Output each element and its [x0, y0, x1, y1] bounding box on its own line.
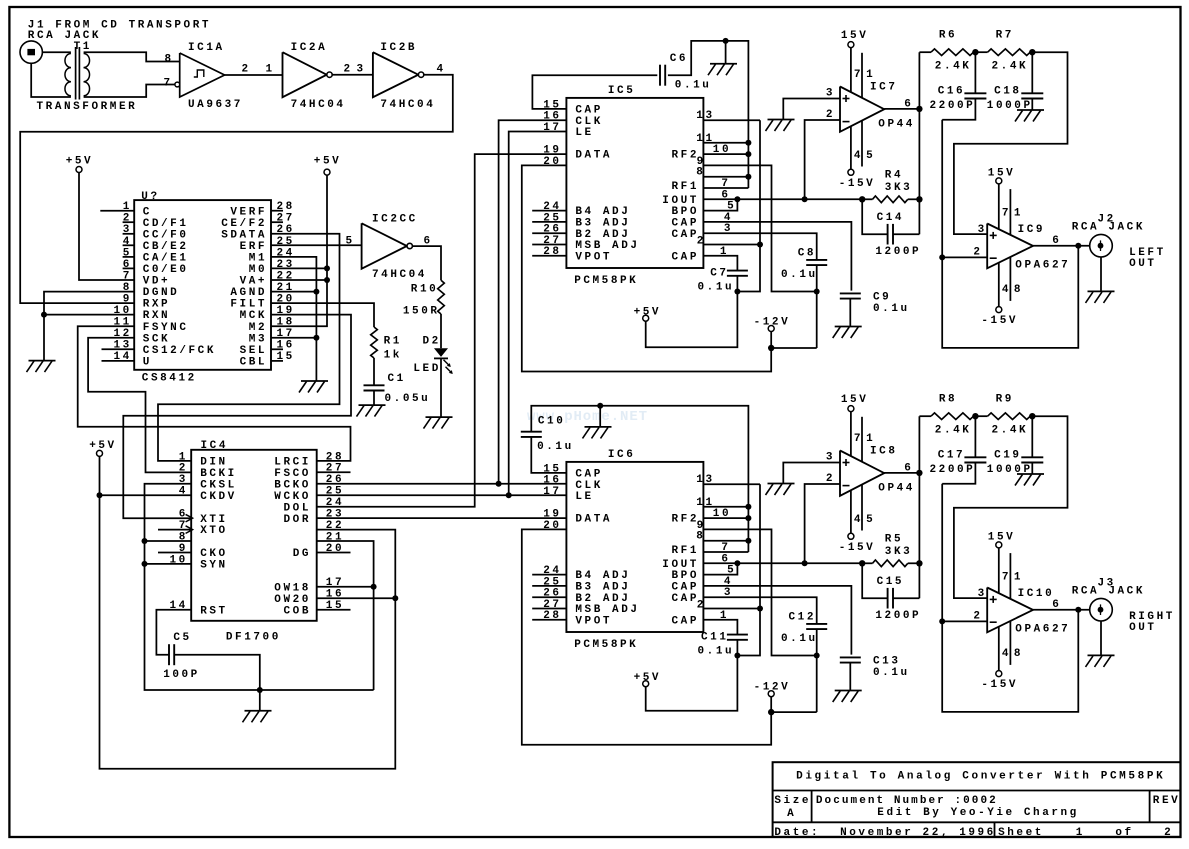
wire FILT pin20 to R1	[271, 303, 374, 327]
svg-text:0.1u: 0.1u	[675, 80, 712, 92]
wire fb to buffer +in	[954, 52, 1068, 234]
svg-text:OP44: OP44	[878, 118, 915, 130]
svg-text:BCKI: BCKI	[200, 468, 237, 480]
svg-text:0.1u: 0.1u	[781, 269, 818, 281]
node pin2 junction	[757, 242, 763, 248]
svg-text:1: 1	[266, 64, 275, 76]
wire CKSL ground net	[145, 484, 374, 690]
size cell	[774, 795, 811, 820]
node R junction left	[859, 560, 865, 566]
wire pin5 stub	[861, 121, 863, 167]
wire pin1 stub b	[1009, 553, 1011, 599]
capacitor C6	[532, 41, 748, 188]
ground C10 node	[583, 406, 612, 439]
resistor R4	[862, 169, 919, 202]
svg-text:74HC04: 74HC04	[291, 99, 346, 111]
ground C9	[833, 327, 862, 339]
wire fb node riser	[942, 484, 1078, 712]
svg-text:VPOT: VPOT	[575, 251, 612, 263]
svg-text:3K3: 3K3	[885, 546, 912, 558]
svg-text:2200P: 2200P	[930, 464, 976, 476]
svg-text:CB/E2: CB/E2	[143, 241, 189, 253]
svg-text:M3: M3	[249, 333, 267, 345]
wire 15V pin7 b	[998, 548, 1000, 593]
node AGND junction	[313, 289, 319, 295]
svg-text:CAP: CAP	[672, 218, 699, 230]
capacitor C10	[521, 406, 749, 552]
node R junction right	[916, 196, 922, 202]
svg-text:RF1: RF1	[672, 545, 699, 557]
svg-text:MSB ADJ: MSB ADJ	[575, 240, 639, 252]
svg-text:OUT: OUT	[1129, 258, 1156, 270]
svg-text:1200P: 1200P	[875, 610, 921, 622]
wire RF1 pin7 stub	[703, 551, 748, 553]
wire M3 pin17	[271, 337, 316, 339]
svg-text:BPO: BPO	[672, 570, 699, 582]
node output junction	[1075, 243, 1081, 249]
svg-text:2: 2	[697, 599, 706, 611]
power -15V IC8	[839, 533, 876, 554]
node pin2 junction	[757, 606, 763, 612]
svg-text:WCKO: WCKO	[274, 491, 311, 503]
svg-text:C9: C9	[873, 291, 891, 303]
op-amp IC8	[826, 445, 915, 495]
svg-text:4: 4	[1002, 648, 1011, 660]
wire R10 to D2	[440, 314, 442, 348]
node buffer -in junction	[939, 618, 945, 624]
svg-text:XTO: XTO	[200, 525, 227, 537]
svg-text:R6: R6	[939, 30, 957, 42]
IC IC5 PCM58PK body	[566, 85, 703, 287]
wire WCKO to LE	[317, 494, 567, 496]
wire OW18 pin17	[317, 586, 374, 588]
ground J2	[1086, 291, 1115, 303]
node out junction	[916, 106, 922, 112]
watermark	[527, 409, 648, 425]
svg-text:CAP: CAP	[575, 469, 602, 481]
svg-text:IOUT: IOUT	[662, 195, 699, 207]
node M0 junction	[324, 265, 330, 271]
capacitor C17	[930, 416, 987, 484]
capacitor C12	[703, 597, 827, 655]
svg-text:M0: M0	[249, 264, 267, 276]
capacitor C11	[698, 620, 748, 658]
svg-text:0.1u: 0.1u	[698, 282, 735, 294]
svg-text:1: 1	[179, 451, 188, 463]
svg-text:19: 19	[543, 509, 561, 521]
svg-text:U: U	[143, 357, 152, 369]
wire -in	[805, 120, 840, 199]
node pin8 junction	[142, 538, 148, 544]
svg-text:CKDV: CKDV	[200, 491, 237, 503]
svg-text:CKO: CKO	[200, 548, 227, 560]
capacitor C16	[930, 52, 987, 120]
svg-text:TRANSFORMER: TRANSFORMER	[37, 101, 138, 113]
svg-text:IC2CC: IC2CC	[372, 214, 418, 226]
svg-text:M1: M1	[249, 253, 267, 265]
wire T1 secondary bottom to IC1A pin7	[84, 85, 175, 98]
rca jack J1	[20, 41, 42, 63]
svg-text:CA/E1: CA/E1	[143, 253, 189, 265]
wire pin2 stub	[703, 244, 760, 246]
svg-text:2: 2	[344, 64, 353, 76]
IC4 nc stubs	[158, 472, 351, 610]
doc number	[816, 795, 998, 807]
wire buffer out	[1033, 609, 1099, 611]
node BPO junction	[734, 196, 740, 202]
svg-text:2.4K: 2.4K	[992, 61, 1029, 73]
wire -15V pin4 b	[998, 263, 1000, 307]
wire IC5 CLK riser	[499, 120, 567, 484]
node CKDV junction	[97, 492, 103, 498]
power +5V VD+	[66, 156, 93, 173]
svg-text:Sheet: Sheet	[998, 827, 1044, 839]
svg-text:CAP: CAP	[672, 593, 699, 605]
node OW20 junction	[392, 595, 398, 601]
svg-text:B3 ADJ: B3 ADJ	[575, 218, 630, 230]
svg-text:OW18: OW18	[274, 582, 311, 594]
svg-text:SDATA: SDATA	[221, 229, 267, 241]
wire R1 to C1	[373, 358, 375, 385]
IC IC6 PCM58PK body	[566, 449, 703, 651]
svg-text:R5: R5	[885, 533, 903, 545]
svg-text:IC10: IC10	[1018, 588, 1055, 600]
svg-text:of: of	[1115, 827, 1133, 839]
node -12V junction	[768, 345, 774, 351]
svg-text:28: 28	[326, 451, 344, 463]
wire IOUT	[703, 198, 862, 200]
node RXN junction	[41, 312, 47, 318]
svg-text:C6: C6	[670, 53, 688, 65]
wire -15V pin4	[850, 126, 852, 169]
wire pin9 net	[703, 165, 816, 291]
svg-text:0.1u: 0.1u	[873, 303, 910, 315]
wire BPO	[703, 563, 737, 574]
svg-text:C15: C15	[877, 576, 904, 588]
capacitor C9	[703, 222, 909, 327]
wire BPO	[703, 199, 737, 210]
resistor R9	[975, 394, 1032, 437]
svg-text:5: 5	[346, 236, 355, 248]
svg-text:74HC04: 74HC04	[380, 99, 435, 111]
svg-text:C13: C13	[873, 655, 900, 667]
wire fb to buffer +in	[954, 416, 1068, 598]
node C10 junction	[597, 403, 603, 409]
receiver U IC1A	[164, 42, 243, 111]
date row	[774, 827, 1173, 839]
IC4 DF1700 body	[191, 440, 317, 643]
svg-text:PCM58PK: PCM58PK	[574, 639, 638, 651]
node C12 bottom	[814, 653, 820, 659]
resistor R8	[919, 394, 975, 437]
svg-text:RST: RST	[200, 605, 227, 617]
svg-text:C19: C19	[994, 450, 1021, 462]
svg-text:OUT: OUT	[1129, 622, 1156, 634]
wire C1 to ground	[373, 391, 375, 406]
svg-text:+5V: +5V	[634, 306, 661, 318]
power -15V IC9	[981, 307, 1018, 328]
wire jack to ground	[1100, 621, 1102, 655]
capacitor C14	[862, 199, 921, 257]
svg-text:2200P: 2200P	[930, 100, 976, 112]
svg-text:VA+: VA+	[240, 276, 267, 288]
wire SYN pin10 stub	[145, 563, 192, 565]
wire M0 pin23	[271, 267, 327, 269]
IC9 pin nums top	[1002, 208, 1023, 220]
wire IC2A out to IC2B in	[332, 64, 373, 76]
power 15V IC10	[988, 532, 1015, 548]
capacitor C5	[163, 632, 200, 681]
svg-text:16: 16	[543, 475, 561, 487]
svg-text:1: 1	[1014, 208, 1023, 220]
svg-text:RXN: RXN	[143, 310, 170, 322]
wire D2 to ground	[440, 358, 442, 417]
svg-text:IC9: IC9	[1018, 224, 1045, 236]
wire buffer out	[1033, 245, 1099, 247]
op-amp IC9	[973, 224, 1070, 272]
svg-text:8: 8	[1014, 284, 1023, 296]
svg-text:-15V: -15V	[839, 542, 876, 554]
IC5 pin labels	[543, 99, 736, 263]
svg-text:0.1u: 0.1u	[537, 441, 574, 453]
IC10 pin nums top	[1002, 572, 1023, 584]
svg-text:CC/F0: CC/F0	[143, 229, 189, 241]
svg-text:C18: C18	[994, 86, 1021, 98]
svg-text:DATA: DATA	[575, 150, 612, 162]
wire AGND pin21	[271, 291, 316, 293]
svg-text:CS12/FCK: CS12/FCK	[143, 345, 216, 357]
node output junction	[1075, 607, 1081, 613]
wire pin9 net	[703, 529, 816, 655]
svg-text:R1: R1	[384, 336, 402, 348]
svg-text:November 22, 1996: November 22, 1996	[840, 827, 996, 839]
svg-text:4: 4	[854, 514, 863, 526]
svg-text:SCK: SCK	[143, 333, 170, 345]
rca jack J2	[1072, 214, 1166, 271]
svg-text:7: 7	[854, 69, 863, 81]
svg-text:RIGHT: RIGHT	[1129, 611, 1175, 623]
wire pin2 stub	[703, 608, 760, 610]
wire J1 to T1 primary	[42, 51, 71, 53]
capacitor C1	[364, 373, 431, 405]
node -12V junction	[768, 709, 774, 715]
svg-text:IC1A: IC1A	[188, 42, 225, 54]
svg-text:M2: M2	[249, 322, 267, 334]
node OW18 junction	[371, 584, 377, 590]
wire FSYNC pin11 to IC4 LRCI	[78, 326, 351, 461]
svg-text:0.1u: 0.1u	[873, 667, 910, 679]
svg-text:RCA JACK: RCA JACK	[1072, 586, 1145, 598]
svg-text:COB: COB	[284, 605, 311, 617]
svg-text:2: 2	[1164, 827, 1173, 839]
svg-text:LRCI: LRCI	[274, 457, 311, 469]
node RF taps	[745, 140, 751, 180]
svg-text:OPA627: OPA627	[1015, 259, 1070, 271]
svg-text:IC4: IC4	[201, 440, 228, 452]
node C5 ground junction	[257, 687, 263, 693]
svg-text:2.4K: 2.4K	[992, 425, 1029, 437]
wire VA+ pin22	[271, 279, 327, 281]
svg-text:A: A	[787, 808, 796, 820]
svg-text:OPA627: OPA627	[1015, 623, 1070, 635]
svg-text:0.1u: 0.1u	[781, 633, 818, 645]
svg-text:MCK: MCK	[240, 310, 267, 322]
power 15V IC9	[988, 168, 1015, 184]
svg-text:8: 8	[165, 53, 174, 65]
svg-text:C12: C12	[789, 612, 816, 624]
node C6 junction	[723, 38, 729, 44]
svg-text:SEL: SEL	[240, 345, 267, 357]
IC6 pin labels	[543, 463, 736, 627]
resistor R1	[371, 327, 402, 362]
svg-text:B3 ADJ: B3 ADJ	[575, 582, 630, 594]
svg-text:Edit By Yeo-Yie Charng: Edit By Yeo-Yie Charng	[877, 807, 1079, 819]
svg-text:B4 ADJ: B4 ADJ	[575, 570, 630, 582]
svg-text:RF2: RF2	[672, 514, 699, 526]
ground IC7 +in	[766, 120, 795, 132]
power -15V IC7	[839, 169, 876, 190]
svg-text:2: 2	[179, 463, 188, 475]
svg-text:15V: 15V	[988, 168, 1015, 180]
svg-text:5: 5	[866, 150, 875, 162]
power +5V DAC	[634, 672, 661, 687]
svg-text:IC2B: IC2B	[380, 42, 417, 54]
node R junction left	[859, 196, 865, 202]
wire OW20 pin16	[317, 597, 396, 599]
wire M1 pin24 to ground	[271, 257, 316, 381]
wire CKDV pin4	[100, 494, 192, 496]
svg-text:LEFT: LEFT	[1129, 247, 1166, 259]
wire IOUT	[703, 562, 862, 564]
svg-text:C0/E0: C0/E0	[143, 264, 189, 276]
svg-text:19: 19	[543, 145, 561, 157]
svg-text:74HC04: 74HC04	[372, 269, 427, 281]
svg-text:15V: 15V	[988, 532, 1015, 544]
wire pin8 stub b	[1009, 621, 1011, 665]
svg-text:2.4K: 2.4K	[935, 425, 972, 437]
svg-text:8: 8	[1014, 648, 1023, 660]
power 15V IC7	[841, 30, 868, 48]
svg-text:R4: R4	[885, 169, 903, 181]
node SYN junction	[142, 561, 148, 567]
wire +5V to M2 pin18	[271, 175, 327, 326]
svg-text:RXP: RXP	[143, 299, 170, 311]
wire pin11 stub	[703, 506, 748, 508]
svg-text:-15V: -15V	[981, 315, 1018, 327]
wire +5V to VD+ pin7	[79, 173, 134, 281]
svg-text:Date:: Date:	[774, 827, 820, 839]
wire -12V node	[771, 292, 817, 349]
transformer T1	[37, 41, 138, 113]
IC7 pin nums bot	[854, 150, 875, 162]
svg-text:15V: 15V	[841, 30, 868, 42]
resistor R10	[403, 280, 444, 317]
svg-text:3K3: 3K3	[885, 182, 912, 194]
svg-text:C10: C10	[538, 416, 565, 428]
svg-text:IC2A: IC2A	[291, 42, 328, 54]
svg-text:0.1u: 0.1u	[698, 646, 735, 658]
svg-text:3: 3	[978, 224, 987, 236]
svg-text:LED: LED	[413, 363, 440, 375]
svg-text:1: 1	[866, 433, 875, 445]
wire J1 bottom to T1 primary	[31, 63, 71, 97]
svg-text:B2 ADJ: B2 ADJ	[575, 229, 630, 241]
svg-text:16: 16	[543, 111, 561, 123]
svg-text:4: 4	[1002, 284, 1011, 296]
power +5V mode	[314, 156, 341, 176]
inverter IC2CC	[346, 214, 433, 282]
ground C18	[1015, 110, 1044, 122]
svg-text:IOUT: IOUT	[662, 559, 699, 571]
svg-text:4: 4	[854, 150, 863, 162]
node C11 bottom	[734, 653, 740, 659]
capacitor C19	[987, 416, 1044, 476]
wire +in ground	[783, 463, 840, 484]
led D2	[413, 336, 452, 375]
svg-text:XTI: XTI	[200, 514, 227, 526]
svg-text:Size: Size	[774, 795, 811, 807]
svg-text:7: 7	[1002, 572, 1011, 584]
power -15V IC10	[981, 671, 1018, 692]
svg-text:AGND: AGND	[230, 287, 267, 299]
svg-text:REV: REV	[1153, 795, 1180, 807]
wire DOL to IC5 DATA	[317, 154, 567, 507]
node buffer -in junction	[939, 254, 945, 260]
wire pin8 stub	[145, 540, 192, 542]
wire -12V to pin20	[522, 529, 771, 744]
ground M1/AGND/M3	[299, 381, 328, 393]
ground DGND	[27, 361, 56, 373]
svg-text:FSCO: FSCO	[274, 468, 311, 480]
wire T1 secondary top to IC1A pin8	[84, 52, 180, 61]
svg-text:IC7: IC7	[870, 81, 897, 93]
wire out riser	[918, 52, 920, 234]
svg-text:3: 3	[826, 87, 835, 99]
svg-text:DG: DG	[293, 548, 311, 560]
resistor R6	[919, 30, 975, 73]
IC4 clock arrows	[186, 514, 193, 533]
svg-text:9: 9	[123, 294, 132, 306]
wire pin13/pin2 net	[737, 120, 760, 291]
node BPO junction	[734, 560, 740, 566]
wire 15V pin7	[850, 48, 852, 92]
node opamp-in junction	[802, 560, 808, 566]
wire fb node riser	[942, 120, 1078, 348]
CS8412 pin labels	[114, 201, 295, 368]
ground C6 node	[708, 41, 737, 75]
node R9 junction	[1029, 413, 1035, 419]
svg-text:FSYNC: FSYNC	[143, 322, 189, 334]
svg-text:B4 ADJ: B4 ADJ	[575, 206, 630, 218]
svg-text:15V: 15V	[841, 394, 868, 406]
svg-text:C16: C16	[938, 86, 965, 98]
svg-text:CS8412: CS8412	[142, 373, 197, 385]
wire IC5 LE riser	[509, 132, 567, 496]
svg-text:2: 2	[697, 235, 706, 247]
wire out riser	[918, 416, 920, 598]
svg-text:IC5: IC5	[608, 85, 635, 97]
svg-text:DGND: DGND	[143, 287, 180, 299]
svg-text:Document Number :0002: Document Number :0002	[816, 795, 998, 807]
power 15V IC8	[841, 394, 868, 412]
title block frame	[773, 762, 1181, 837]
capacitor C15	[862, 563, 921, 622]
node R8 junction	[972, 413, 978, 419]
IC U? CS8412 body	[134, 191, 271, 385]
capacitor C18	[987, 52, 1044, 112]
inverter IC2A	[283, 42, 346, 111]
wire 15V pin7 b	[998, 184, 1000, 229]
